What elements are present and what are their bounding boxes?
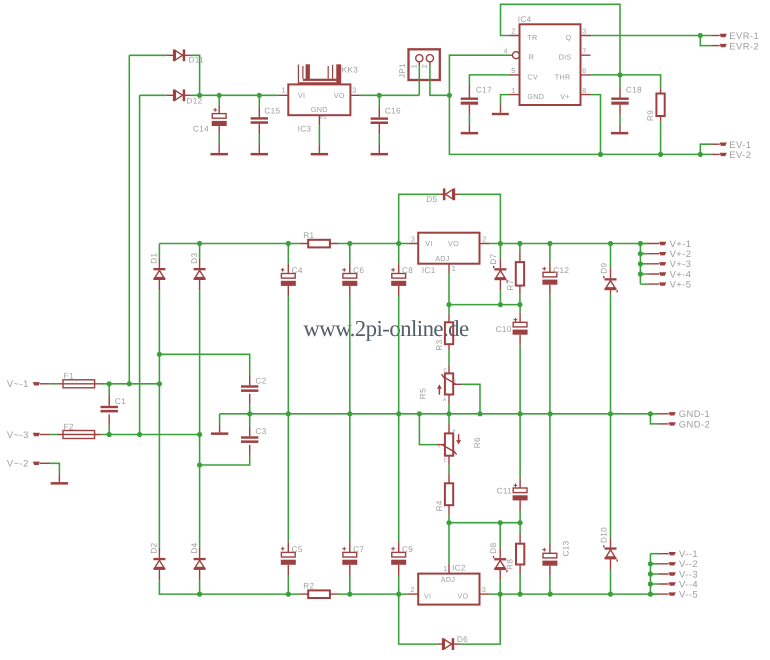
wire: C10 to GND rail [519,345,521,414]
svg-text:D12: D12 [187,97,203,106]
terminal GND-1 [659,408,711,419]
wire: D5 protection loop [399,194,501,243]
diode D5 [426,188,459,204]
svg-text:VO: VO [457,591,468,600]
svg-text:D1: D1 [150,253,159,264]
trimmer R6 [437,414,482,465]
heatsink KK3 [298,64,358,83]
svg-text:C15: C15 [264,106,280,115]
wire: IC3 output to JP1 [361,94,420,96]
svg-text:E: E [444,457,447,462]
wire: V- output rail [490,593,659,595]
wire: R6 bottom to R4 [448,465,450,473]
capacitor C7 [342,542,364,575]
svg-text:C12: C12 [553,266,569,275]
zener diode D8 [489,523,508,581]
ground for V~-2 [51,474,68,485]
ground on IC4 GND pin [492,95,510,116]
svg-text:V+-5: V+-5 [670,279,692,290]
svg-text:4: 4 [504,46,508,55]
node dots on V+ rail [197,241,202,246]
capacitor C2 [241,375,267,404]
svg-text:GND: GND [311,105,328,114]
wire: V+ raw rail left segment [159,243,300,245]
svg-text:ADJ: ADJ [435,254,450,263]
node: C3 bottom / D3-D4 leg junction [197,462,202,467]
resistor R2 [300,582,338,599]
svg-text:1: 1 [443,564,447,573]
wire: F1 to bridge [101,383,160,385]
svg-text:C4: C4 [292,266,303,275]
svg-text:F2: F2 [64,422,74,431]
svg-text:R8: R8 [506,559,515,570]
regulator IC1 [409,233,490,275]
node: C1 top junction [107,381,112,386]
ground below C17 [461,115,478,134]
svg-text:D6: D6 [457,635,468,644]
svg-text:3: 3 [411,235,415,244]
svg-text:D9: D9 [600,263,609,274]
svg-text:2: 2 [411,585,415,594]
svg-text:C14: C14 [193,125,209,134]
node: V~-1 / D1-D2 leg junction [157,381,162,386]
svg-text:R4: R4 [435,500,444,511]
svg-text:C6: C6 [353,266,364,275]
svg-text:THR: THR [555,72,571,81]
wire: C5 to V- rail [287,575,289,594]
wire: R2 to IC2 input [338,593,408,595]
ground below IC3 GND pin [311,115,328,155]
svg-text:C16: C16 [385,107,401,116]
svg-text:V~-2: V~-2 [7,458,29,469]
svg-text:IC1: IC1 [422,266,436,275]
wire: JP1 pin1 down to 5V rail [418,66,420,95]
svg-text:VI: VI [424,591,431,600]
svg-text:C8: C8 [402,266,413,275]
ground below C14 [211,134,228,155]
svg-text:DIS: DIS [559,53,572,62]
resistor R8 [506,523,525,574]
capacitor C4 [281,244,303,297]
svg-text:C9: C9 [402,545,413,554]
node: junction right of JP1 [447,93,452,98]
svg-text:R7: R7 [506,279,515,290]
svg-text:V+: V+ [560,92,570,101]
capacitor C10 [496,305,528,345]
svg-text:C3: C3 [255,427,266,436]
trimmer R5 [419,365,457,404]
svg-text:C2: C2 [255,376,266,385]
wire: V~-2 to ground [50,463,59,473]
wire: IC2 ADJ pin up [448,563,450,573]
wire: D9 down through GND rail to D10 [610,294,612,537]
wire: C2 top row from D1/D2 node [159,354,249,375]
node: D11 feed junction [127,381,132,386]
svg-text:2: 2 [420,64,429,68]
svg-text:IC2: IC2 [452,563,466,572]
wire: ADJ2 row [449,522,520,524]
jumper JP1 [398,49,440,80]
svg-text:R9: R9 [646,110,655,121]
diode D12 [166,89,202,105]
wire: GND-2 branch [650,414,658,424]
wire: 18V raw rail to IC3 [191,94,278,96]
wire: R9 bottom to EV rail [660,121,662,154]
wire: C7 to V- rail [349,575,351,594]
wire: R7 to ADJ row [519,295,521,305]
wire: D2 to V- rail corner [159,580,300,594]
svg-text:C11: C11 [497,486,513,495]
diode D11 [166,49,204,64]
wire: ADJ row [449,304,520,306]
capacitor C3 [241,414,267,455]
capacitor C9 [391,542,413,575]
svg-text:C17: C17 [476,86,492,95]
svg-text:C7: C7 [353,545,364,554]
wire: C1 bottom to V~-3 line [108,425,110,435]
svg-text:7: 7 [582,46,586,55]
wire: C18 branch from THR node [619,75,621,88]
svg-text:VI: VI [298,91,305,100]
wire: R3 to R5 [448,350,450,365]
wire: D10 to V- rail [610,570,612,595]
V- output fan [648,548,698,599]
svg-text:R6: R6 [473,437,482,448]
capacitor C12 [542,244,569,295]
wire: C3 bottom to D3/D4 node [200,455,250,465]
wire: D11 output down to D12 node [191,55,200,95]
svg-text:2: 2 [482,235,486,244]
svg-text:A: A [443,397,447,402]
wire: JP1 pin2 down to 555 node [430,66,450,95]
svg-text:D3: D3 [190,253,199,264]
svg-text:D7: D7 [489,253,498,264]
svg-text:CV: CV [527,72,538,81]
wire: R1 to IC1 input [338,243,409,245]
voltage regulator IC3 [278,84,360,133]
wire: D3 to D4 leg [199,290,201,548]
svg-text:D2: D2 [150,542,159,553]
wire: GND rail [220,413,659,415]
wire: EVR-2 branch [700,36,711,46]
wire: D8 to V- rail [499,580,501,594]
capacitor C13 [542,540,570,576]
ground below C18 [611,115,628,134]
capacitor C1 [101,384,127,425]
wire: R5 wiper to GND rail [453,383,462,385]
svg-text:GND-2: GND-2 [679,418,710,429]
node: C1 bottom junction [107,432,112,437]
resistor R4 [435,473,453,515]
diode D6 [438,635,468,650]
svg-text:C5: C5 [292,545,303,554]
wire: R5 bottom to GND rail [448,403,450,413]
capacitor C16 [371,93,401,134]
svg-text:1: 1 [511,86,515,95]
svg-text:C13: C13 [562,540,571,556]
ground below C16 [371,134,388,155]
wire: EV-1 branch [700,144,711,154]
zener diode D7 [489,244,508,291]
fuse F2 [57,422,101,438]
wire: D12 input from V~-3 line [140,95,167,434]
wire: C8 down through GND rail to C9 [398,296,400,542]
svg-text:D4: D4 [190,542,199,553]
svg-text:JP1: JP1 [398,63,407,78]
wire: C13 to V- rail [549,576,551,594]
svg-text:VO: VO [334,91,345,100]
svg-text:Q: Q [566,33,572,42]
wire: C11 to ADJ2 row [519,511,521,523]
wire: Q output to EVR terminals [591,35,712,37]
wire: C4 down through GND rail to C5 [287,296,289,542]
resistor R3 [435,305,453,351]
fuse F1 [57,372,101,388]
wire: D1 to D2 leg [158,290,160,548]
terminal EV-2 [712,149,752,160]
resistor R9 [646,88,665,121]
ground stub on GND rail [211,414,228,435]
capacitor C15 [251,93,281,134]
terminal V~-2 [7,458,50,469]
regulator IC2 [408,563,490,604]
svg-text:F1: F1 [64,372,74,381]
capacitor C6 [342,244,364,297]
wire: 555 reset net up and over [449,55,509,95]
svg-text:6: 6 [582,66,586,75]
svg-text:E: E [444,368,447,373]
wire: C12 down through GND rail to C13 [549,295,551,543]
wire: F2 to bridge [101,434,200,436]
svg-text:C18: C18 [626,86,642,95]
resistor R1 [300,231,338,248]
wire: R8 to V- rail [519,574,521,594]
svg-text:VI: VI [425,239,432,248]
node: V+ pin corner [591,95,601,155]
terminal V~-3 [7,429,50,440]
node: EVR junction [698,33,703,38]
node: D11/D12 junction [197,93,202,98]
svg-text:EVR-2: EVR-2 [729,40,759,51]
svg-text:1: 1 [452,264,456,273]
svg-text:VO: VO [448,239,459,248]
wire: D7 to ADJ row [499,290,501,304]
wire: D4 to V- rail [199,580,201,594]
svg-text:GND: GND [527,92,544,101]
svg-text:S: S [453,378,456,383]
node: V~-3 / D3-D4 leg junction [197,432,202,437]
svg-text:C1: C1 [115,397,126,406]
wire: R6 wiper to GND rail [437,444,445,446]
svg-text:8: 8 [582,86,586,95]
wire: C9 to V- rail [398,575,400,594]
V+ output fan [638,238,692,290]
terminal EVR-1 [712,30,760,41]
zener diode D10 [600,527,618,570]
node: THR/C18 junction [617,72,622,77]
ground below C15 [251,134,268,155]
wire: R4 down to ADJ2 row [448,515,450,523]
wire: D6 protection loop [399,594,501,644]
terminal GND-2 [659,418,711,429]
resistor R7 [506,244,524,295]
svg-text:D5: D5 [426,195,437,204]
svg-text:3: 3 [582,27,586,36]
svg-text:3: 3 [482,585,486,594]
svg-text:ADJ: ADJ [441,575,456,584]
svg-text:KK3: KK3 [342,66,359,75]
node: D12 feed junction [137,432,142,437]
diode D1 [150,244,166,291]
capacitor C14 [193,93,227,134]
wire: V+ output rail [490,243,648,245]
svg-text:5: 5 [511,66,515,75]
diode D2 [150,542,166,580]
diode D4 [190,542,206,580]
svg-text:R2: R2 [303,582,314,591]
wire: V~-1 to F1 [50,383,57,385]
svg-text:EV-2: EV-2 [729,149,751,160]
zener diode D9 [600,244,618,295]
svg-text:R: R [529,53,535,62]
timer IC4 [504,15,591,105]
svg-text:A: A [452,428,456,433]
svg-text:R5: R5 [419,388,428,399]
svg-text:R1: R1 [303,231,314,240]
svg-text:1: 1 [282,85,286,94]
wire: CV pin to C17 [469,75,509,85]
svg-text:3: 3 [352,85,356,94]
svg-text:C10: C10 [496,325,512,334]
svg-text:D8: D8 [489,542,498,553]
wire: TR feedback loop over IC4 [501,4,621,75]
terminal EV-1 [712,139,752,150]
svg-text:D10: D10 [600,527,609,543]
svg-text:V~-3: V~-3 [7,429,29,440]
capacitor C8 [391,244,413,297]
svg-text:V--5: V--5 [679,589,698,600]
inversion bubble on pin 4 [513,52,520,59]
wire: C2 bottom to GND rail [249,404,251,414]
svg-text:V~-1: V~-1 [7,378,29,389]
capacitor C5 [281,542,303,575]
capacitor C18 [611,86,642,115]
svg-text:1: 1 [410,64,419,68]
node: C2 tap on D1-D2 leg [157,352,162,357]
terminal V~-1 [7,378,50,389]
svg-text:IC3: IC3 [298,125,312,134]
diode D3 [190,244,206,291]
wire: THR net to R9 [591,75,661,88]
wire: IC1 ADJ pin down [448,264,450,274]
svg-text:R3: R3 [435,339,444,350]
wire: EV supply rail down from JP1 node [449,95,711,154]
terminal EVR-2 [712,40,760,51]
capacitor C11 [497,414,528,511]
wire: C6 down through GND rail to C7 [349,296,351,542]
svg-text:D11: D11 [189,56,205,65]
svg-text:IC4: IC4 [518,15,532,24]
svg-text:2: 2 [511,27,515,36]
capacitor C17 [461,85,492,115]
wire: V~-3 to F2 [50,434,57,436]
svg-text:TR: TR [527,33,537,42]
wire: D11 input from V~-1 line [129,55,166,384]
